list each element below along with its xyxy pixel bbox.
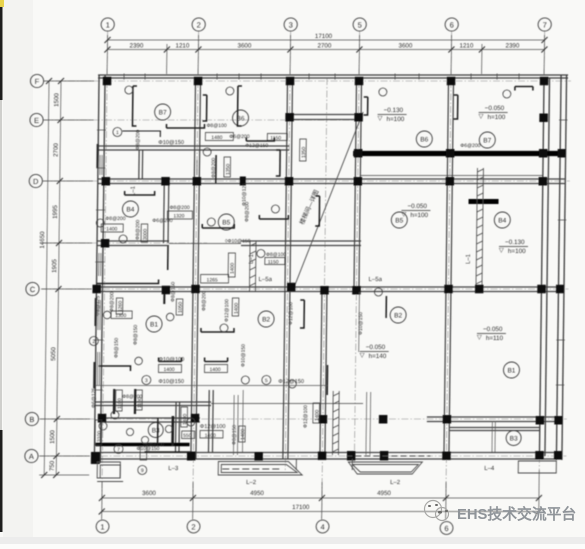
room B3 left	[148, 423, 163, 438]
bubble 1	[101, 18, 114, 31]
room B1 right	[503, 362, 519, 378]
left segment dim line	[56, 81, 61, 475]
svg-text:L–4: L–4	[484, 466, 495, 472]
beam end blob	[240, 177, 246, 186]
bottom dim ticks	[99, 495, 105, 501]
ann vbox belowB3	[140, 446, 147, 460]
column 2/C	[191, 285, 200, 294]
wall y243	[97, 240, 169, 242]
grid line 4	[322, 78, 327, 520]
left dim ticks	[46, 78, 52, 84]
grid line 1	[102, 31, 108, 520]
partition B3r	[491, 421, 493, 452]
svg-text:Φ12@100: Φ12@100	[288, 302, 294, 325]
svg-text:L–1: L–1	[466, 253, 472, 264]
ann 1100 vbox	[116, 390, 123, 411]
svg-text:3600: 3600	[399, 43, 413, 50]
rebar v B2l low a	[232, 395, 235, 455]
notch wall vertical g3	[286, 78, 289, 122]
svg-text:3: 3	[145, 378, 148, 384]
ann 1350 vbox2	[224, 157, 231, 177]
ann 1480 box	[205, 133, 233, 141]
svg-text:D: D	[33, 177, 39, 186]
wall g2 vertical	[193, 78, 196, 289]
ann 1400 box b	[204, 365, 227, 373]
bar B7r left	[454, 95, 458, 119]
bubble B	[25, 412, 38, 425]
svg-text:F: F	[35, 77, 40, 86]
svg-text:▽: ▽	[378, 115, 383, 122]
ann 1265 box	[201, 275, 229, 284]
grid7 east wall	[539, 78, 544, 456]
column 5/F	[355, 77, 364, 86]
svg-text:Φ8@150: Φ8@150	[232, 425, 238, 445]
wall g5 vertical	[354, 122, 356, 291]
column midA1	[254, 452, 263, 461]
ann 1300 box B1	[111, 311, 132, 319]
ann 550 box	[182, 431, 195, 439]
room B7 left	[155, 104, 171, 120]
partition B2r low	[365, 392, 368, 455]
bar vert B6top	[237, 86, 241, 126]
svg-text:5: 5	[358, 21, 362, 30]
svg-text:4950: 4950	[250, 490, 264, 497]
ann B4 3000 vbox	[141, 224, 148, 242]
svg-text:Φ10@150: Φ10@150	[158, 379, 184, 385]
room B7 right	[479, 132, 495, 148]
svg-text:5: 5	[265, 378, 268, 384]
svg-text:17100: 17100	[315, 33, 333, 40]
top dim ticks	[104, 47, 110, 53]
svg-text:1995: 1995	[52, 205, 59, 219]
room B6 left	[232, 110, 248, 126]
ann 1350 vbox	[300, 139, 307, 161]
wall g4 vertical	[320, 289, 322, 459]
grid line D-C tick	[41, 242, 207, 244]
svg-text:1265: 1265	[207, 278, 218, 284]
wall B3dense top	[95, 401, 211, 403]
bar stairv	[326, 365, 328, 395]
wall g2 vertical lower	[191, 289, 193, 459]
grid line F	[43, 80, 571, 82]
ann 1100 vbox b	[136, 390, 143, 410]
column midA3	[380, 451, 389, 461]
svg-text:1350: 1350	[225, 164, 231, 175]
svg-text:◊Φ10@150: ◊Φ10@150	[225, 239, 251, 245]
partition x216 lower	[207, 390, 210, 453]
yellow corner fleck	[0, 0, 4, 7]
svg-text:B3: B3	[510, 436, 518, 443]
svg-text:B: B	[29, 415, 34, 424]
svg-text:4950: 4950	[377, 490, 391, 497]
svg-text:Φ10@150: Φ10@150	[241, 344, 247, 367]
grid line 6	[446, 31, 452, 520]
svg-text:1400: 1400	[163, 367, 174, 373]
bar b3 v119	[113, 389, 116, 414]
porch left	[97, 462, 120, 478]
room B2 left	[258, 311, 274, 327]
porch right	[518, 461, 556, 473]
svg-text:4: 4	[320, 523, 324, 532]
bar right top	[515, 87, 533, 91]
ann 1400 vbox2	[181, 407, 188, 427]
svg-text:1400: 1400	[230, 263, 236, 274]
thick beam B6-B7	[353, 151, 564, 156]
svg-text:1400: 1400	[240, 429, 246, 440]
partition x142	[138, 150, 140, 179]
svg-text:B2: B2	[262, 317, 270, 324]
column 5/C	[352, 286, 361, 295]
svg-text:L–5a: L–5a	[369, 277, 383, 283]
svg-text:EHS技术交流平台: EHS技术交流平台	[457, 505, 576, 523]
column 7/A	[535, 451, 544, 460]
hatched beam stair x340	[331, 391, 334, 455]
bubble 2	[192, 18, 205, 31]
thick beam bottom-left	[96, 443, 190, 447]
svg-text:1210: 1210	[176, 43, 190, 50]
column 3/E notch	[285, 113, 294, 122]
partition x183 B3	[174, 402, 177, 453]
bar B1a	[159, 358, 182, 362]
column 2/D	[193, 177, 202, 186]
svg-text:Φ12@100: Φ12@100	[303, 405, 309, 428]
svg-text:550: 550	[183, 433, 192, 439]
bubble 2 bottom	[187, 520, 200, 533]
column 7/F	[540, 77, 549, 86]
svg-text:B7: B7	[483, 138, 491, 145]
bubble F	[30, 74, 43, 87]
svg-text:h=100: h=100	[488, 114, 506, 121]
svg-text:3600: 3600	[142, 490, 156, 497]
notch wall vertical g5	[355, 78, 358, 122]
bar top1	[166, 124, 204, 128]
svg-text:−0.050: −0.050	[485, 105, 505, 112]
svg-text:Φ10@125: Φ10@125	[241, 183, 247, 206]
grid line D	[42, 180, 570, 182]
column 3/D	[285, 177, 294, 186]
column 2/F	[194, 77, 203, 86]
column 7/E	[539, 114, 548, 123]
svg-text:h=100: h=100	[386, 116, 404, 123]
svg-text:Φ8@200: Φ8@200	[135, 220, 141, 240]
bar top2	[246, 138, 274, 142]
svg-text:3000: 3000	[143, 229, 149, 240]
bar B4a	[125, 191, 155, 195]
svg-text:Φ6@200: Φ6@200	[460, 143, 480, 149]
svg-text:Φ8@200: Φ8@200	[122, 394, 142, 400]
svg-text:Φ10@150: Φ10@150	[136, 446, 159, 452]
svg-text:1300: 1300	[115, 313, 126, 319]
column 1/F	[103, 77, 112, 86]
column 6/D	[446, 177, 455, 186]
svg-text:1: 1	[100, 523, 104, 532]
rebar line x363	[358, 292, 361, 352]
svg-text:1400: 1400	[106, 227, 117, 233]
svg-text:▽: ▽	[499, 247, 504, 254]
column 7/D	[539, 177, 548, 186]
watermark logo	[425, 501, 449, 521]
hatched beam left x256	[248, 241, 251, 291]
svg-text:B1: B1	[150, 322, 158, 329]
wall B right	[427, 416, 562, 418]
column 5/beam	[354, 149, 363, 158]
bubble 4 bottom	[316, 520, 329, 533]
column 4/C	[320, 286, 329, 295]
corridor wall yD	[98, 178, 358, 180]
svg-text:1150: 1150	[268, 260, 279, 266]
door arc line g2	[196, 160, 198, 175]
bar vert left	[132, 86, 136, 126]
column E outer/beam	[558, 149, 566, 158]
bubble 7	[538, 18, 551, 31]
column 3/C	[287, 283, 296, 292]
wall g6 vertical	[446, 78, 449, 292]
grid line 5	[354, 31, 359, 470]
svg-text:Φ8@200: Φ8@200	[105, 216, 125, 222]
grid line 2	[193, 31, 199, 520]
svg-text:B4: B4	[126, 207, 134, 214]
bottom gray margin band	[0, 537, 585, 544]
column 4/B	[319, 415, 328, 424]
svg-text:B2: B2	[394, 313, 402, 320]
bar B4l small	[167, 246, 169, 270]
bar b3 v2	[157, 418, 159, 444]
ann 3100 vbox	[95, 420, 102, 445]
bubble 5	[353, 18, 366, 31]
column t/D	[161, 177, 170, 186]
svg-text:1400: 1400	[234, 303, 240, 314]
svg-text:2: 2	[92, 339, 95, 345]
bar vert g2top	[203, 95, 207, 121]
svg-text:2: 2	[191, 523, 195, 532]
bar vert B2b	[300, 300, 304, 328]
svg-text:1210: 1210	[460, 43, 474, 50]
ann B5 1320 box	[167, 211, 192, 219]
bar b3 h	[144, 451, 190, 453]
hatched beam right x482	[476, 168, 477, 290]
room B3 right	[506, 431, 521, 446]
ann 1260 vbox B1	[116, 298, 123, 314]
svg-text:1905: 1905	[51, 259, 58, 273]
column out/A	[554, 451, 562, 460]
svg-text:6: 6	[444, 524, 448, 533]
left extension lines	[44, 80, 94, 82]
svg-text:Φ12@100: Φ12@100	[200, 424, 226, 430]
bottom total dim line	[102, 511, 539, 513]
column t/C	[162, 286, 171, 295]
svg-text:L–1: L–1	[249, 253, 255, 264]
grid line 7	[539, 31, 544, 470]
room B5 right	[391, 212, 407, 228]
room B4 left	[122, 201, 138, 217]
room B2 right	[390, 307, 406, 323]
ann 1400 box c	[200, 431, 223, 439]
column 2/A	[187, 452, 196, 461]
svg-text:h=100: h=100	[508, 248, 526, 255]
svg-text:1500: 1500	[49, 430, 56, 444]
svg-text:h=100: h=100	[410, 212, 428, 219]
bar B5a	[202, 224, 234, 228]
stair flight diagonal 1	[293, 112, 363, 290]
column 3/F	[286, 77, 295, 86]
svg-text:17100: 17100	[292, 504, 310, 511]
bubble E	[30, 113, 43, 126]
left outer wall	[94, 75, 99, 463]
svg-text:Φ6@125: Φ6@125	[91, 388, 97, 408]
rebar v B2l low b	[241, 390, 244, 452]
svg-text:Φ8@150: Φ8@150	[114, 338, 120, 358]
svg-text:h=110: h=110	[486, 335, 504, 342]
room B4 right	[494, 212, 510, 228]
top outer wall	[98, 74, 568, 76]
bar B5 right	[259, 215, 288, 219]
bar B6r left	[364, 97, 368, 115]
svg-text:750: 750	[49, 460, 56, 471]
column 5/D	[354, 177, 363, 186]
svg-text:6: 6	[450, 21, 454, 30]
top total dim line	[108, 39, 545, 41]
svg-text:B5: B5	[395, 218, 403, 225]
svg-text:1400: 1400	[209, 367, 220, 373]
bubble A	[25, 449, 38, 462]
top extension lines	[106, 35, 108, 74]
svg-text:▽: ▽	[401, 211, 406, 218]
svg-text:B6: B6	[420, 137, 428, 144]
svg-text:C: C	[30, 285, 36, 294]
bar B2a	[201, 328, 234, 332]
bubble 6 bottom	[440, 522, 453, 535]
svg-text:1350: 1350	[301, 147, 307, 158]
bar B1b	[205, 358, 228, 362]
svg-text:−0.130: −0.130	[384, 107, 404, 114]
bottom extension lines	[101, 482, 103, 519]
svg-text:−0.130: −0.130	[505, 239, 525, 246]
svg-text:−0.050: −0.050	[483, 326, 503, 333]
grid line B	[39, 418, 567, 420]
column 6/A	[442, 452, 451, 461]
svg-text:▽: ▽	[360, 352, 365, 359]
ann 1400 vboxB2l	[239, 426, 246, 442]
svg-text:2700: 2700	[318, 43, 332, 50]
svg-text:1260: 1260	[118, 301, 124, 312]
svg-text:B4: B4	[498, 218, 506, 225]
column 1/C	[92, 285, 101, 294]
bubble 1 bottom	[96, 520, 109, 533]
column 6/C	[444, 285, 453, 294]
svg-text:5050: 5050	[50, 347, 57, 361]
beam bar on L-1	[469, 199, 499, 204]
svg-text:E: E	[34, 116, 39, 125]
svg-text:B5: B5	[222, 220, 230, 227]
svg-text:1050: 1050	[178, 302, 184, 313]
svg-text:9: 9	[141, 468, 144, 474]
svg-text:1480: 1480	[211, 135, 222, 141]
bar vert B5b	[315, 196, 319, 226]
svg-text:▽: ▽	[477, 334, 482, 341]
dark window segments left wall	[94, 144, 97, 388]
column 1/t	[101, 239, 110, 248]
column 1/D	[102, 177, 111, 186]
stair lower lines	[295, 459, 297, 470]
svg-text:A: A	[29, 452, 34, 461]
column 6/F	[447, 77, 456, 86]
ann 1400 box a	[158, 365, 181, 373]
bubble 3	[284, 18, 297, 31]
wall B3r inner	[450, 427, 540, 429]
tick1 line	[122, 131, 160, 137]
column 7/B	[536, 416, 545, 425]
svg-text:Φ12@150: Φ12@150	[245, 143, 268, 149]
svg-text:B1: B1	[507, 368, 515, 375]
room B1 left	[146, 316, 162, 332]
bubble C	[26, 282, 39, 295]
svg-text:1400: 1400	[314, 410, 320, 421]
svg-text:Φ8@100: Φ8@100	[206, 123, 226, 129]
svg-text:2390: 2390	[130, 43, 144, 50]
svg-text:1: 1	[116, 130, 119, 136]
column 1/A	[91, 452, 100, 464]
window lines left wall	[99, 155, 101, 175]
bar corr1	[215, 155, 217, 183]
bar B2r top	[385, 296, 387, 318]
svg-text:Φ8@200: Φ8@200	[109, 292, 115, 312]
svg-text:7: 7	[117, 447, 120, 453]
bubble D	[29, 174, 42, 187]
svg-text:h=140: h=140	[369, 353, 387, 360]
bar b3 v140	[134, 389, 137, 414]
svg-text:Φ8@200: Φ8@200	[169, 205, 189, 211]
svg-text:1320: 1320	[173, 214, 184, 220]
svg-text:−0.050: −0.050	[366, 344, 386, 351]
column 6/B	[443, 415, 452, 424]
svg-text:Φ8@150: Φ8@150	[133, 325, 139, 345]
column L1/C	[475, 285, 484, 294]
wall C full	[96, 286, 563, 288]
column 1/B	[98, 414, 107, 423]
svg-text:B7: B7	[159, 110, 167, 117]
column stair/A	[347, 451, 356, 461]
svg-text:2: 2	[197, 21, 201, 30]
ann 1400 vbox L1	[228, 253, 235, 277]
grid line A	[38, 455, 566, 457]
notch wall horizontal E	[290, 114, 359, 116]
room B5 left	[218, 214, 234, 230]
top segment dim line	[107, 49, 544, 51]
column out/B	[554, 416, 562, 425]
svg-text:2700: 2700	[53, 143, 60, 157]
svg-text:L–3: L–3	[168, 466, 179, 472]
svg-text:14650: 14650	[39, 231, 46, 249]
svg-text:Φ8@200: Φ8@200	[201, 291, 207, 311]
ann 1150 box top	[267, 134, 287, 141]
svg-text:7: 7	[543, 21, 547, 30]
svg-text:1500: 1500	[53, 93, 60, 107]
column midA2	[318, 452, 327, 461]
bottom segment dim line	[102, 497, 539, 499]
grid line C	[40, 288, 568, 290]
bar B1 left low	[98, 366, 130, 371]
wall g6 lower	[444, 292, 446, 459]
corridor wall y148	[98, 145, 289, 147]
porch mid1	[218, 462, 302, 476]
svg-text:L–2: L–2	[390, 480, 401, 486]
svg-text:▽: ▽	[479, 113, 484, 120]
rebar extent line B1	[95, 385, 327, 387]
bar C left	[97, 280, 159, 284]
svg-text:2390: 2390	[506, 43, 520, 50]
svg-text:3100: 3100	[97, 431, 103, 442]
column out/C	[556, 285, 564, 294]
